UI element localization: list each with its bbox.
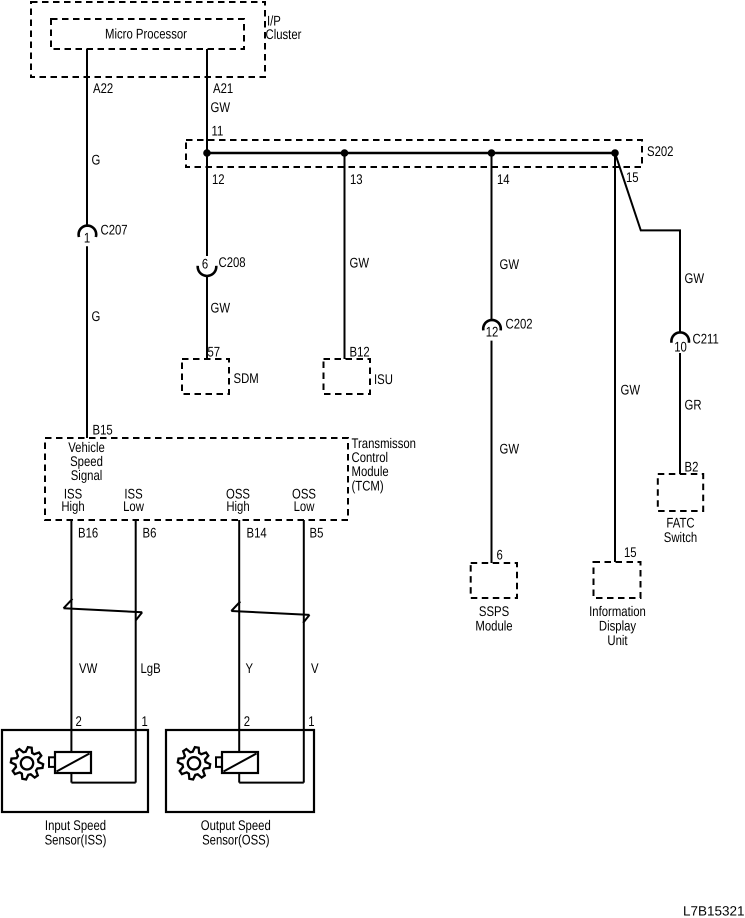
- OSS sensor box: [166, 730, 314, 812]
- connector C202: [483, 320, 501, 330]
- svg-text:15: 15: [624, 544, 637, 560]
- OSS internal wiring: [238, 773, 240, 783]
- label C202: [506, 316, 533, 332]
- svg-text:Switch: Switch: [664, 529, 697, 545]
- junction dot 12: [203, 149, 211, 157]
- wire color GW (A21): [211, 99, 231, 115]
- label OSS High: [226, 486, 250, 502]
- label C207: [101, 222, 128, 238]
- pin 10 of C211: [674, 339, 687, 355]
- pin label B12: [350, 344, 370, 360]
- Information Display Unit box: [594, 562, 641, 598]
- ISS internal wiring: [70, 773, 72, 783]
- svg-text:GW: GW: [500, 441, 520, 457]
- svg-text:11: 11: [212, 122, 224, 138]
- label SDM: [234, 370, 259, 386]
- twisted pair symbol ISS: [64, 599, 73, 609]
- svg-text:VW: VW: [79, 660, 98, 676]
- svg-text:Low: Low: [123, 498, 145, 514]
- wire GW to C208: [206, 153, 208, 256]
- svg-text:GW: GW: [350, 255, 370, 271]
- wire color GW (to C202): [500, 256, 520, 272]
- svg-text:B15: B15: [93, 422, 113, 438]
- pin 12 of C202: [486, 324, 499, 340]
- junction dot 15: [611, 149, 619, 157]
- wire GR to FATC: [679, 353, 681, 474]
- wire G to TCM: [86, 246, 88, 438]
- svg-text:ISU: ISU: [374, 371, 393, 387]
- twisted pair symbol OSS: [231, 602, 240, 612]
- pin 1 of C207: [84, 230, 90, 246]
- svg-text:Y: Y: [246, 660, 254, 676]
- svg-text:2: 2: [76, 713, 82, 729]
- TCM box: [45, 438, 348, 520]
- svg-text:Unit: Unit: [607, 632, 627, 648]
- connector C207: [79, 226, 97, 237]
- label Transmisson Control Module (TCM): [352, 435, 416, 451]
- svg-text:Sensor(OSS): Sensor(OSS): [202, 831, 269, 847]
- connector C211: [671, 332, 689, 342]
- pin label A22: [93, 80, 113, 96]
- svg-text:Cluster: Cluster: [266, 26, 302, 42]
- wire to FATC (diagonal): [615, 153, 680, 333]
- wire color GW (to SSPS): [500, 441, 520, 457]
- svg-text:SDM: SDM: [234, 370, 259, 386]
- wire color LgB: [141, 660, 161, 676]
- wire A21: [206, 49, 208, 153]
- svg-text:6: 6: [497, 547, 503, 563]
- pin 2 of ISS: [76, 713, 82, 729]
- svg-text:GW: GW: [211, 99, 231, 115]
- label ISS High: [64, 486, 82, 502]
- label SSPS Module: [479, 603, 509, 619]
- svg-text:13: 13: [350, 171, 363, 187]
- label ISS Low: [124, 486, 142, 502]
- svg-text:B5: B5: [310, 525, 324, 541]
- svg-text:B16: B16: [78, 525, 98, 541]
- wire GW to C202: [491, 153, 493, 320]
- wire color G (lower): [92, 308, 101, 324]
- svg-text:G: G: [92, 152, 101, 168]
- svg-text:High: High: [61, 498, 84, 514]
- svg-text:57: 57: [208, 344, 221, 360]
- svg-text:6: 6: [202, 256, 208, 272]
- pin 1 of OSS: [308, 713, 314, 729]
- svg-text:C208: C208: [219, 254, 246, 270]
- wire GW to ISU: [344, 153, 346, 359]
- ISU box: [324, 359, 371, 394]
- wire color VW: [79, 660, 98, 676]
- label C211: [693, 331, 719, 347]
- wire color GR: [685, 397, 702, 413]
- svg-text:B2: B2: [685, 459, 699, 475]
- label I/P Cluster: [267, 13, 281, 29]
- wire color GW (to ISU): [350, 255, 370, 271]
- svg-text:1: 1: [142, 713, 148, 729]
- connector C208: [198, 266, 217, 276]
- svg-text:10: 10: [674, 339, 687, 355]
- svg-text:GW: GW: [621, 382, 641, 398]
- pin 14 of S202: [497, 171, 510, 187]
- wire color GW (to IDU): [621, 382, 641, 398]
- wire B16 VW (ISS high): [70, 520, 72, 752]
- wire GW to SSPS: [491, 341, 493, 563]
- svg-text:Signal: Signal: [71, 467, 103, 483]
- wire GW to IDU: [614, 153, 616, 562]
- FATC Switch box: [658, 474, 703, 511]
- label Vehicle Speed Signal: [68, 439, 105, 455]
- pin 11 of S202: [212, 122, 224, 138]
- pin 15 of IDU: [624, 544, 637, 560]
- svg-text:B14: B14: [247, 525, 267, 541]
- sensor coil OSS: [222, 752, 258, 773]
- pin 12 of S202: [212, 171, 225, 187]
- splice S202 box: [186, 140, 642, 167]
- svg-text:V: V: [311, 660, 319, 676]
- svg-text:GW: GW: [500, 256, 520, 272]
- figure number L7B15321: [683, 904, 745, 918]
- label OSS Low: [292, 486, 316, 502]
- svg-text:GW: GW: [211, 300, 231, 316]
- svg-text:C202: C202: [506, 316, 533, 332]
- svg-text:B6: B6: [143, 525, 157, 541]
- svg-text:GR: GR: [685, 397, 702, 413]
- pin label B14: [247, 525, 267, 541]
- junction dot 13: [341, 149, 349, 157]
- wire GW to SDM: [206, 276, 208, 359]
- pin 2 of OSS: [244, 713, 250, 729]
- gear icon ISS: [11, 747, 43, 779]
- svg-text:1: 1: [308, 713, 314, 729]
- label C208: [219, 254, 246, 270]
- pin label B16: [78, 525, 98, 541]
- Micro Processor box: [51, 19, 244, 49]
- pin label B15: [93, 422, 113, 438]
- wire B14 Y (OSS high): [238, 520, 240, 752]
- svg-text:Sensor(ISS): Sensor(ISS): [45, 831, 107, 847]
- wire color GW (to C211): [685, 270, 705, 286]
- label FATC Switch: [666, 515, 694, 531]
- svg-text:GW: GW: [685, 270, 705, 286]
- bus wire S202: [207, 152, 615, 154]
- pin label B5: [310, 525, 324, 541]
- svg-text:C207: C207: [101, 222, 128, 238]
- wire color G (upper): [92, 152, 101, 168]
- ISS sensor box: [2, 730, 148, 812]
- SSPS Module box: [471, 563, 517, 598]
- svg-text:2: 2: [244, 713, 250, 729]
- pin label B2: [685, 459, 699, 475]
- svg-text:14: 14: [497, 171, 510, 187]
- svg-text:G: G: [92, 308, 101, 324]
- svg-text:B12: B12: [350, 344, 370, 360]
- junction dot 14: [488, 149, 496, 157]
- label Micro Processor: [105, 26, 187, 42]
- svg-text:Low: Low: [294, 498, 316, 514]
- pin label 57: [208, 344, 221, 360]
- svg-text:Micro Processor: Micro Processor: [105, 26, 187, 42]
- label ISU: [374, 371, 393, 387]
- wire B5 V (OSS low): [303, 520, 305, 783]
- SDM box: [182, 359, 229, 394]
- svg-text:S202: S202: [647, 143, 674, 159]
- svg-text:L7B15321: L7B15321: [683, 904, 745, 918]
- pin 6 of C208: [202, 256, 208, 272]
- I/P Cluster box: [31, 2, 265, 77]
- pin label A21: [213, 80, 233, 96]
- pin label B6: [143, 525, 157, 541]
- svg-text:A22: A22: [93, 80, 113, 96]
- label Output Speed Sensor(OSS): [201, 817, 271, 833]
- svg-text:12: 12: [486, 324, 499, 340]
- label S202: [647, 143, 674, 159]
- wire A22 (I/P cluster pin A22): [86, 49, 88, 226]
- wire color GW (to C208): [211, 300, 231, 316]
- svg-text:LgB: LgB: [141, 660, 161, 676]
- wire B6 LgB (ISS low): [135, 520, 137, 783]
- sensor coil ISS: [55, 752, 91, 773]
- wire color V: [311, 660, 319, 676]
- svg-text:15: 15: [626, 169, 639, 185]
- pin 13 of S202: [350, 171, 363, 187]
- pin 1 of ISS: [142, 713, 148, 729]
- svg-text:(TCM): (TCM): [352, 478, 384, 494]
- pin 15 of S202: [626, 169, 639, 185]
- svg-text:1: 1: [84, 230, 90, 246]
- svg-text:A21: A21: [213, 80, 233, 96]
- svg-text:Module: Module: [475, 618, 512, 634]
- label Input Speed Sensor(ISS): [45, 817, 106, 833]
- pin 6 of SSPS: [497, 547, 503, 563]
- gear icon OSS: [178, 747, 210, 779]
- svg-text:12: 12: [212, 171, 225, 187]
- wire color Y: [246, 660, 254, 676]
- svg-text:C211: C211: [693, 331, 719, 347]
- svg-text:High: High: [226, 498, 249, 514]
- label Information Display Unit: [589, 603, 646, 619]
